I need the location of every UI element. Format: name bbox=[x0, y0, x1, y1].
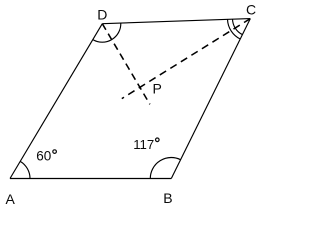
side DC bbox=[102, 19, 250, 24]
svg-text:P: P bbox=[153, 80, 162, 96]
angle arc at C (inner) bbox=[233, 19, 243, 34]
degree mark of 117 bbox=[156, 138, 160, 142]
svg-text:C: C bbox=[246, 2, 256, 18]
degree mark of 60 bbox=[53, 150, 57, 154]
angle arc at A bbox=[20, 161, 30, 178]
svg-text:117: 117 bbox=[133, 137, 154, 152]
bisector CP (dashed) bbox=[122, 19, 251, 99]
bisector DP (dashed) bbox=[102, 24, 150, 105]
angle arc at D bbox=[93, 23, 121, 42]
side BC bbox=[171, 19, 250, 179]
svg-text:B: B bbox=[163, 190, 172, 206]
svg-text:A: A bbox=[6, 191, 16, 207]
angle arc at C (outer) bbox=[228, 19, 241, 39]
side AB bbox=[10, 178, 171, 180]
angle arc at B bbox=[150, 158, 180, 179]
svg-text:60: 60 bbox=[36, 148, 51, 163]
side AD bbox=[10, 24, 102, 179]
svg-text:D: D bbox=[97, 7, 107, 23]
